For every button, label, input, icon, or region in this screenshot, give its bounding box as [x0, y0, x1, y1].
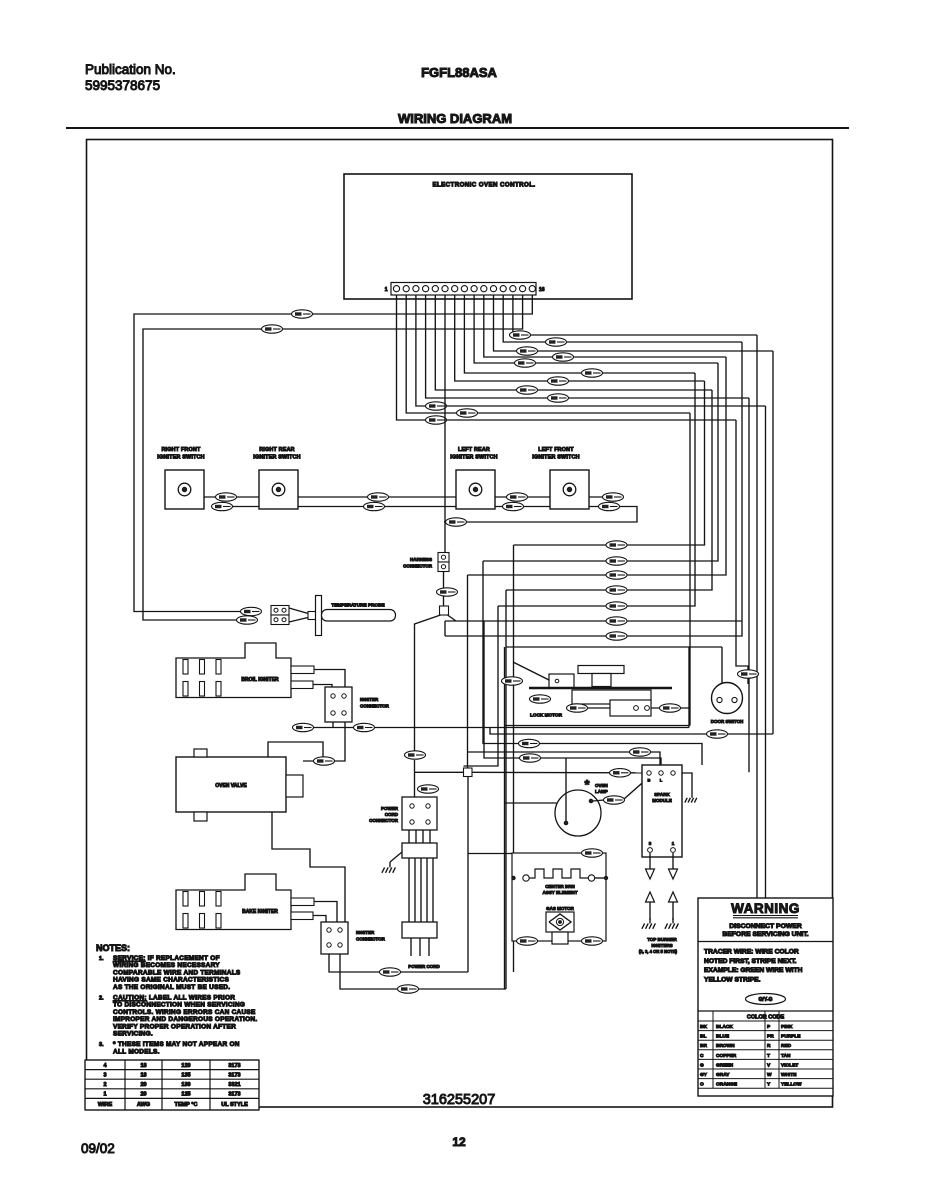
svg-text:GREEN: GREEN	[716, 1062, 734, 1068]
svg-text:IGNITER: IGNITER	[360, 697, 379, 702]
svg-text:EXAMPLE: GREEN WIRE WITH: EXAMPLE: GREEN WIRE WITH	[704, 967, 803, 974]
svg-text:1: 1	[103, 1092, 106, 1098]
svg-text:GAS MOTOR: GAS MOTOR	[546, 906, 574, 911]
svg-text:CONNECTOR: CONNECTOR	[356, 937, 386, 942]
svg-text:R: R	[767, 1043, 771, 1049]
svg-text:WIRING DIAGRAM: WIRING DIAGRAM	[398, 111, 512, 126]
svg-text:LEFT REAR: LEFT REAR	[458, 447, 490, 453]
svg-text:TEMP °C: TEMP °C	[175, 1102, 198, 1108]
svg-text:3173: 3173	[228, 1072, 240, 1078]
svg-text:BR: BR	[700, 1043, 707, 1049]
svg-text:CONTROLS. WIRING ERRORS CAN C: CONTROLS. WIRING ERRORS CAN CAUSE	[113, 1009, 256, 1016]
svg-text:RIGHT FRONT: RIGHT FRONT	[161, 447, 201, 453]
svg-text:DOOR SWITCH: DOOR SWITCH	[711, 719, 744, 724]
svg-text:(2, 3, 4 OR 5 NOTE): (2, 3, 4 OR 5 NOTE)	[639, 949, 678, 954]
svg-text:CORD: CORD	[385, 812, 399, 817]
svg-text:IGNITERS: IGNITERS	[651, 943, 672, 948]
svg-text:TOP BURNER: TOP BURNER	[647, 937, 677, 942]
svg-text:ORANGE: ORANGE	[716, 1082, 738, 1088]
svg-text:3.: 3.	[99, 1042, 104, 1048]
svg-text:WIRING BECOMES NECESSARY: WIRING BECOMES NECESSARY	[113, 962, 220, 969]
svg-text:09/02: 09/02	[81, 1141, 115, 1156]
svg-text:PR: PR	[767, 1034, 774, 1040]
svg-text:LOCK MOTOR: LOCK MOTOR	[530, 713, 563, 718]
svg-text:G/Y-G: G/Y-G	[759, 997, 773, 1003]
svg-text:ASSY ELEMENT: ASSY ELEMENT	[543, 890, 578, 895]
svg-text:TEMPERATURE PROBE: TEMPERATURE PROBE	[331, 603, 384, 608]
svg-text:IGNITER SWITCH: IGNITER SWITCH	[450, 455, 497, 461]
svg-text:PURPLE: PURPLE	[781, 1034, 801, 1040]
svg-text:3173: 3173	[228, 1092, 240, 1098]
svg-text:1.: 1.	[99, 956, 104, 962]
svg-text:DISCONNECT POWER: DISCONNECT POWER	[729, 923, 802, 930]
svg-text:BROWN: BROWN	[716, 1043, 735, 1049]
svg-text:GRAY: GRAY	[716, 1072, 730, 1078]
svg-text:IMPROPER AND DANGEROUS OPERATI: IMPROPER AND DANGEROUS OPERATION.	[113, 1016, 257, 1023]
svg-text:BAKE IGNITER: BAKE IGNITER	[242, 909, 278, 915]
svg-text:UL STYLE: UL STYLE	[221, 1102, 248, 1108]
svg-text:BL: BL	[700, 1034, 706, 1040]
svg-text:3: 3	[103, 1072, 106, 1078]
svg-text:BLUE: BLUE	[716, 1034, 730, 1040]
svg-text:3173: 3173	[228, 1063, 240, 1069]
svg-text:5995378675: 5995378675	[85, 78, 160, 93]
svg-text:IGNITER: IGNITER	[356, 930, 375, 935]
svg-text:GY: GY	[700, 1072, 708, 1078]
svg-text:VERIFY PROPER OPERATION AFTER: VERIFY PROPER OPERATION AFTER	[113, 1023, 236, 1030]
svg-text:12: 12	[452, 1135, 466, 1149]
svg-text:CONNECTOR: CONNECTOR	[403, 564, 433, 569]
svg-text:G: G	[700, 1062, 704, 1068]
svg-text:NOTED FIRST, STRIPE NEXT.: NOTED FIRST, STRIPE NEXT.	[704, 958, 797, 965]
svg-text:Publication No.: Publication No.	[85, 62, 176, 77]
svg-text:135: 135	[181, 1072, 190, 1078]
svg-text:20: 20	[140, 1082, 146, 1088]
svg-text:POWER CORD: POWER CORD	[408, 964, 440, 969]
svg-text:T: T	[767, 1053, 770, 1059]
svg-text:1: 1	[385, 287, 388, 293]
svg-text:COMPARABLE WIRE AND TERMINALS: COMPARABLE WIRE AND TERMINALS	[113, 969, 241, 976]
svg-text:120: 120	[181, 1063, 190, 1069]
svg-text:RIGHT REAR: RIGHT REAR	[259, 447, 295, 453]
svg-text:FGFL88ASA: FGFL88ASA	[421, 65, 497, 80]
svg-text:CONNECTOR: CONNECTOR	[369, 818, 399, 823]
svg-text:ELECTRONIC OVEN CONTROL.: ELECTRONIC OVEN CONTROL.	[432, 182, 535, 189]
svg-text:NOTES:: NOTES:	[96, 943, 130, 953]
svg-text:TRACER WIRE: WIRE COLOR: TRACER WIRE: WIRE COLOR	[704, 949, 799, 956]
svg-text:18: 18	[140, 1063, 146, 1069]
svg-text:RED: RED	[781, 1043, 792, 1049]
svg-text:VIOLET: VIOLET	[781, 1062, 798, 1068]
svg-text:MODULE: MODULE	[652, 798, 672, 803]
svg-text:LEFT FRONT: LEFT FRONT	[538, 447, 574, 453]
svg-text:SPARK: SPARK	[654, 792, 670, 797]
svg-text:WIRE: WIRE	[98, 1102, 113, 1108]
svg-text:BEFORE SERVICING UNIT.: BEFORE SERVICING UNIT.	[722, 931, 808, 938]
svg-text:IGNITER SWITCH: IGNITER SWITCH	[253, 455, 300, 461]
svg-text:LAMP: LAMP	[595, 789, 608, 794]
svg-text:CONNECTOR: CONNECTOR	[360, 704, 390, 709]
svg-text:WHITE: WHITE	[781, 1072, 797, 1078]
svg-text:3321: 3321	[228, 1082, 240, 1088]
svg-text:125: 125	[181, 1092, 190, 1098]
svg-text:HAVING SAME CHARACTERISTICS: HAVING SAME CHARACTERISTICS	[113, 977, 229, 984]
svg-text:HARNESS: HARNESS	[410, 557, 432, 562]
svg-text:TO DISCONNECTION WHEN SERVICIN: TO DISCONNECTION WHEN SERVICING	[113, 1002, 245, 1009]
svg-text:2.: 2.	[99, 996, 104, 1002]
svg-text:16: 16	[539, 287, 545, 293]
svg-text:OVEN: OVEN	[595, 783, 608, 788]
svg-text:CAUTION: LABEL ALL WIRES PRI: CAUTION: LABEL ALL WIRES PRIOR	[113, 995, 235, 1002]
svg-text:2: 2	[103, 1082, 106, 1088]
svg-text:O: O	[700, 1082, 704, 1088]
svg-text:OVEN VALVE: OVEN VALVE	[215, 783, 247, 789]
svg-text:BLACK: BLACK	[716, 1024, 733, 1030]
svg-text:*: *	[584, 777, 590, 792]
svg-text:W: W	[767, 1072, 772, 1078]
svg-text:AS THE ORIGINAL MUST BE USED.: AS THE ORIGINAL MUST BE USED.	[113, 984, 230, 991]
svg-text:YELLOW STRIPE.: YELLOW STRIPE.	[704, 976, 761, 983]
svg-text:B: B	[648, 778, 651, 783]
svg-text:* THESE ITEMS MAY NOT APPEAR O: * THESE ITEMS MAY NOT APPEAR ON	[113, 1041, 240, 1048]
svg-text:CENTER BRN: CENTER BRN	[545, 884, 575, 889]
svg-text:20: 20	[140, 1092, 146, 1098]
svg-text:130: 130	[181, 1082, 190, 1088]
svg-text:PINK: PINK	[781, 1024, 793, 1030]
svg-text:WARNING: WARNING	[731, 901, 800, 916]
svg-text:316255207: 316255207	[423, 1092, 496, 1108]
svg-text:SERVICING.: SERVICING.	[113, 1031, 153, 1038]
svg-text:TAN: TAN	[781, 1053, 791, 1059]
svg-text:POWER: POWER	[381, 806, 399, 811]
svg-text:YELLOW: YELLOW	[781, 1082, 802, 1088]
svg-text:IGNITER SWITCH: IGNITER SWITCH	[157, 455, 204, 461]
svg-text:18: 18	[140, 1072, 146, 1078]
svg-text:COPPER: COPPER	[716, 1053, 737, 1059]
svg-text:AWG: AWG	[137, 1102, 150, 1108]
svg-text:IGNITER SWITCH: IGNITER SWITCH	[532, 455, 579, 461]
svg-text:C: C	[700, 1053, 704, 1059]
svg-text:BROIL IGNITER: BROIL IGNITER	[241, 677, 279, 683]
svg-text:BK: BK	[700, 1024, 707, 1030]
svg-text:ALL MODELS.: ALL MODELS.	[113, 1048, 160, 1055]
svg-text:SERVICE: IF REPLACEMENT OF: SERVICE: IF REPLACEMENT OF	[113, 955, 220, 962]
